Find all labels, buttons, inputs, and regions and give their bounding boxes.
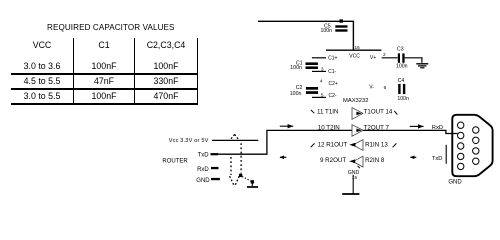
table title [47, 23, 171, 32]
op-amp R1 receiver [349, 140, 363, 151]
table row line 1 [11, 73, 198, 75]
table header VCC [12, 40, 72, 50]
capacitor C4 [397, 78, 409, 102]
wire dotted diagonal to ground [242, 177, 251, 182]
svg-text:ROUTER: ROUTER [162, 158, 188, 164]
svg-text:100n: 100n [321, 28, 333, 34]
ground earth symbol right [416, 64, 428, 68]
svg-text:9 R2OUT: 9 R2OUT [320, 157, 346, 164]
wire dashed vertical left [230, 157, 232, 175]
arrow signal direction right (IC to DB9) [410, 124, 424, 128]
pin stub RxD router [211, 167, 219, 169]
svg-text:11 T1IN: 11 T1IN [317, 108, 338, 115]
connector pin 9 [473, 158, 479, 164]
svg-text:C3: C3 [397, 47, 404, 53]
table row1 C2C3C4 value [135, 61, 197, 71]
svg-text:16: 16 [355, 45, 361, 50]
svg-text:TxD: TxD [432, 156, 443, 162]
svg-text:T2OUT 7: T2OUT 7 [364, 125, 390, 132]
node junction dot [239, 174, 242, 177]
table column line 3 [197, 38, 198, 104]
svg-text:V-: V- [369, 84, 374, 90]
wire C3 to ground [405, 58, 422, 63]
table row3 C1 value [74, 91, 134, 101]
op-amp T1 driver [352, 108, 363, 120]
connector pin 3 [458, 143, 464, 149]
svg-text:6: 6 [384, 85, 387, 90]
svg-text:4: 4 [320, 79, 323, 84]
svg-text:10 T2IN: 10 T2IN [318, 125, 340, 132]
svg-text:5: 5 [321, 93, 324, 98]
wire dashed arrow up at Vcc [230, 134, 240, 140]
wire tick row1 right [394, 111, 397, 115]
wire TxD stub to DB9 [445, 145, 447, 164]
capacitor C1 [290, 60, 318, 71]
table row line 3 [11, 103, 198, 105]
svg-text:C1-: C1- [328, 69, 336, 75]
ground symbol small [247, 182, 258, 187]
wire Vcc from router [212, 139, 258, 141]
wire GND pin to ground [352, 175, 354, 194]
op-amp R2 receiver [349, 156, 363, 167]
wire pin C1+ [312, 57, 326, 59]
svg-text:2: 2 [383, 52, 386, 57]
wire tick row1 left [311, 110, 314, 113]
table row2 C2C3C4 value [135, 76, 197, 86]
capacitor C2 [290, 85, 318, 97]
table header C2,C3,C4 [135, 40, 197, 50]
node C5 junction [340, 19, 343, 22]
svg-text:100n: 100n [396, 64, 408, 70]
svg-text:R2IN 8: R2IN 8 [365, 157, 385, 164]
wire dashed vertical right [240, 143, 242, 173]
connector pin 6 [473, 127, 479, 133]
svg-text:Vcc 3.3V or 5V: Vcc 3.3V or 5V [169, 138, 209, 144]
table row3 C2C3C4 value [135, 91, 197, 101]
table row2 vcc range [12, 76, 72, 86]
svg-text:100n: 100n [397, 96, 409, 102]
connector pin 2 [458, 132, 464, 138]
arrow signal direction left (IC to router) [279, 156, 286, 160]
table row line 2 [11, 88, 198, 90]
svg-text:RxD: RxD [197, 167, 209, 173]
ground symbol IC [342, 193, 359, 195]
wire pin C2- [312, 96, 326, 98]
svg-text:TxD: TxD [198, 153, 210, 159]
svg-text:C4: C4 [398, 78, 405, 84]
table header C1 [74, 40, 134, 50]
connector DB9 outline [452, 115, 492, 176]
svg-text:R1IN 13: R1IN 13 [365, 141, 388, 148]
table column line 2 [134, 38, 135, 104]
svg-text:C1+: C1+ [328, 56, 337, 62]
connector pin 7 [473, 137, 479, 143]
connector pin 4 [458, 153, 464, 159]
table row2 C1 value [74, 76, 134, 86]
table row1 vcc range [12, 61, 72, 71]
svg-text:VCC: VCC [349, 53, 360, 59]
svg-text:3: 3 [321, 66, 324, 71]
node ground dot [251, 180, 254, 183]
svg-text:GND: GND [448, 180, 462, 186]
connector pin 5 [458, 163, 464, 169]
connector pin 8 [473, 148, 479, 154]
table column line 1 [73, 38, 74, 104]
wire tick below R2 [358, 166, 360, 168]
wire tick row3 right [393, 143, 397, 147]
svg-text:T1OUT 14: T1OUT 14 [364, 108, 393, 115]
capacitor C3 [396, 47, 408, 70]
svg-text:GND: GND [196, 178, 210, 184]
capacitor C5 [321, 24, 348, 34]
svg-text:12 R1OUT: 12 R1OUT [318, 141, 348, 148]
wire V+ to C3 [382, 57, 398, 59]
pin stub TxD router [211, 153, 219, 155]
wire Vcc top rail [258, 21, 353, 49]
arrow signal direction right (router to IC) [280, 124, 293, 128]
wire pin C1- [312, 70, 326, 72]
svg-text:RxD: RxD [432, 125, 443, 131]
wire TxD path to T2IN [218, 130, 352, 154]
svg-text:100n: 100n [290, 91, 302, 97]
wire tick row3 left [311, 143, 315, 147]
table row1 C1 value [74, 61, 134, 71]
svg-text:C2+: C2+ [329, 81, 338, 87]
svg-text:100n: 100n [290, 65, 302, 71]
wire T2OUT to DB9 RxD [363, 130, 458, 133]
svg-text:MAX3232: MAX3232 [343, 98, 368, 104]
svg-text:C2-: C2- [329, 93, 337, 99]
table row3 vcc range [12, 91, 72, 101]
wire dashed arrow down [230, 176, 240, 186]
pin stub GND router [211, 178, 220, 180]
arrow signal direction left (DB9 to IC) [410, 156, 417, 160]
op-amp U1 MAX3232 top edge [326, 49, 381, 51]
op-amp T2 driver [352, 125, 363, 137]
connector pin 1 [458, 122, 464, 128]
svg-text:V+: V+ [370, 55, 376, 61]
